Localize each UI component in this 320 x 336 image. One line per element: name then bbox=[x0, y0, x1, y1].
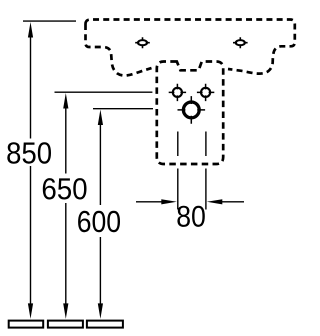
dimension reference line 850 (top) bbox=[23, 20, 76, 22]
dimension reference line 600 bbox=[93, 108, 153, 110]
arrowhead 650 up bbox=[63, 93, 68, 109]
label 850 bbox=[7, 142, 51, 164]
pedestal / siphon cover outline (dashed, with top notch) bbox=[157, 62, 223, 165]
washbasin outline (dashed, top rim) bbox=[86, 20, 295, 74]
dimension line 600 (vertical) bbox=[99, 121, 101, 305]
arrowhead 850 up bbox=[28, 22, 33, 38]
arrowhead 80 right (points left) bbox=[207, 199, 223, 204]
dimension reference line 650 bbox=[55, 91, 153, 93]
drain hole (bold crosshair circle) bbox=[178, 96, 206, 124]
arrowhead 600 up bbox=[98, 110, 103, 126]
arrowhead 650 down bbox=[63, 303, 68, 319]
extension line left of 80 dim bbox=[177, 132, 179, 210]
extension line right of 80 dim bbox=[205, 132, 207, 210]
label 80 bbox=[177, 206, 204, 227]
dimension line 650 (vertical) bbox=[65, 105, 67, 305]
floor slab 3 bbox=[87, 321, 123, 328]
dimension line 850 (vertical) bbox=[30, 35, 32, 305]
pedestal fixing hole right (crosshair circle) bbox=[197, 84, 214, 101]
label 600 bbox=[78, 211, 120, 232]
washbasin outline (dashed, left half underside) bbox=[86, 24, 152, 76]
floor slab 1 bbox=[9, 321, 44, 328]
floor slab 2 bbox=[48, 321, 83, 328]
arrowhead 80 left (points right) bbox=[161, 199, 177, 204]
pedestal fixing hole left (crosshair circle) bbox=[169, 84, 186, 101]
top fixing hole left (crosshair ellipse) bbox=[135, 37, 150, 48]
top fixing hole right (crosshair ellipse) bbox=[233, 37, 248, 48]
arrowhead 600 down bbox=[98, 303, 103, 319]
label 650 bbox=[43, 178, 87, 199]
dimension line 80 with outside arrows bbox=[136, 201, 244, 203]
arrowhead 850 down bbox=[28, 303, 33, 319]
